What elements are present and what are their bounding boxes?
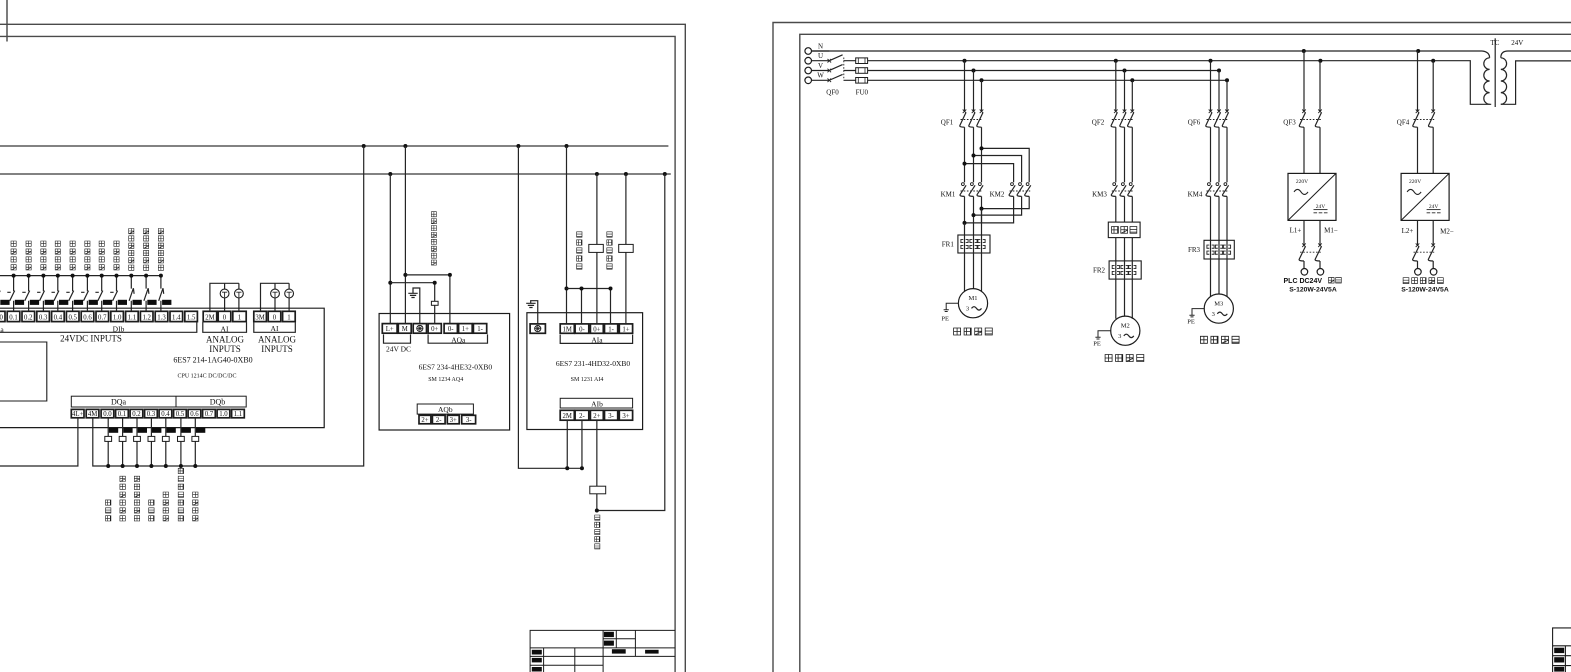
SM1231 terminal 0- xyxy=(575,324,589,333)
load cell element xyxy=(590,486,606,494)
DI 0.1 manual button switch xyxy=(7,276,14,312)
DQ0.1 wash motor fwd label xyxy=(120,476,125,521)
KM3 contact x=1115.8 xyxy=(1113,183,1116,186)
svg-text:SM 1231 AI4: SM 1231 AI4 xyxy=(571,377,604,383)
svg-text:W: W xyxy=(817,72,824,80)
fuse on AQ 0+ xyxy=(431,301,438,305)
SM1234 terminal 0+ xyxy=(428,324,441,334)
svg-text:ANALOG: ANALOG xyxy=(258,335,296,345)
junction on M rail x=405.4 xyxy=(403,144,407,148)
DI 0.4 fill button terminal bar xyxy=(59,300,68,305)
svg-text:220V: 220V xyxy=(1296,179,1308,185)
svg-text:0.7: 0.7 xyxy=(98,314,107,321)
SM1234 terminal L+ xyxy=(382,324,397,334)
breaker QF4 pole B xyxy=(1432,61,1434,112)
contactor KM2 xyxy=(1011,183,1014,186)
DQ0.0 fill valve wire xyxy=(107,418,109,466)
wire 4M return bus xyxy=(93,146,364,466)
CPU DQ terminal 1.1 xyxy=(232,409,245,417)
fuse FU0 pole V xyxy=(856,68,868,74)
wire load cell circuit xyxy=(597,174,665,511)
label motor M3 (chinese) xyxy=(1200,336,1239,343)
svg-text:PE: PE xyxy=(1187,319,1195,326)
DQ0.0 fill valve fuse xyxy=(105,436,112,441)
svg-text:1.2: 1.2 xyxy=(142,314,151,321)
svg-text:24V: 24V xyxy=(1429,204,1439,210)
svg-text:0.2: 0.2 xyxy=(132,411,141,418)
output switch x=1320.0 xyxy=(1319,220,1321,245)
wire L+ riser to SM1234 xyxy=(389,174,391,324)
svg-text:FU0: FU0 xyxy=(856,89,869,97)
svg-text:1: 1 xyxy=(238,314,241,321)
svg-text:AI: AI xyxy=(271,324,279,333)
right sheet title block xyxy=(1553,628,1571,672)
CPU DI terminal 0.7 xyxy=(96,311,109,321)
svg-text:QF3: QF3 xyxy=(1283,119,1296,127)
svg-text:L2+: L2+ xyxy=(1402,227,1414,235)
breaker QF3 pole A xyxy=(1303,51,1305,111)
wires FR2 to M2 xyxy=(1116,279,1133,319)
svg-text:3-: 3- xyxy=(466,417,472,424)
wire 4L+ to left xyxy=(0,418,78,466)
wire stub top-left xyxy=(6,0,8,42)
CPU AI terminal 2M (group a) xyxy=(203,311,217,321)
SM1234 terminal 1+ xyxy=(459,324,473,334)
svg-text:0.1: 0.1 xyxy=(9,314,18,321)
junction on L+ rail x=596.9 xyxy=(595,172,599,176)
phase line U xyxy=(844,61,1492,105)
bracket DIb xyxy=(0,322,197,332)
DI 1.2 mid level sensor label xyxy=(144,229,149,271)
DQ0.3 drain valve fuse xyxy=(148,436,155,441)
label sensor supply xyxy=(1403,278,1443,284)
DQ0.5 alarm lamp label xyxy=(178,468,183,521)
DI 1.0 dry button terminal bar xyxy=(118,300,127,305)
svg-text:M2−: M2− xyxy=(1440,228,1454,236)
svg-text:1.3: 1.3 xyxy=(157,314,166,321)
breaker QF0 pole W xyxy=(828,79,832,83)
svg-text:INPUTS: INPUTS xyxy=(261,344,293,354)
KM4 linkage xyxy=(1207,190,1229,192)
DQ0.6 dry motor bar xyxy=(196,428,205,433)
svg-text:2-: 2- xyxy=(436,417,442,424)
svg-text:DQb: DQb xyxy=(210,398,226,407)
KM1 contact x=981.5 xyxy=(979,183,982,186)
SM1231 terminal 3- xyxy=(605,410,618,420)
junction on L+ rail x=625.9 xyxy=(624,172,628,176)
wires FR3 to M3 xyxy=(1211,259,1228,297)
label load cell (rotated) xyxy=(595,515,600,549)
svg-text:3M: 3M xyxy=(255,314,264,321)
fuse FU0 pole W xyxy=(856,78,868,84)
svg-text:3: 3 xyxy=(966,306,969,313)
SM1231 terminal 0+ xyxy=(590,324,603,333)
DQ0.4 spin motor wire xyxy=(165,418,167,466)
supply terminal U xyxy=(805,57,812,64)
svg-text:1.0: 1.0 xyxy=(113,314,122,321)
label temperature sensor 1 xyxy=(577,232,582,269)
svg-text:DQa: DQa xyxy=(111,398,127,407)
QF1 linkage xyxy=(961,119,983,121)
analog sensor pair b potentiometer at 289.1 xyxy=(285,289,294,298)
DI 0.1 manual button label xyxy=(11,241,16,270)
svg-text:0.4: 0.4 xyxy=(54,314,63,321)
CPU DQ terminal 0.5 xyxy=(174,409,187,417)
DI 0.5 wash button switch xyxy=(66,276,73,312)
svg-text:S-120W-24V5A: S-120W-24V5A xyxy=(1289,287,1337,294)
svg-text:1.5: 1.5 xyxy=(187,314,196,321)
svg-text:3: 3 xyxy=(1212,311,1215,318)
SM1231 terminal 1- xyxy=(605,324,618,333)
left sheet inner border xyxy=(0,36,675,672)
SM1231 terminal 1M xyxy=(560,324,574,333)
QF1 pole x=973.5 xyxy=(973,71,975,112)
SM1231 terminal 2+ xyxy=(590,410,603,420)
module SM1234 outline xyxy=(379,314,510,431)
wire 24V L+ rail xyxy=(0,173,671,175)
DI 0.2 stop button label xyxy=(26,241,31,270)
output terminal x=1320.0 xyxy=(1317,269,1324,276)
DQ0.5 alarm lamp bar xyxy=(182,428,191,433)
wire 1M/0-/1- bus xyxy=(567,289,611,324)
supply terminal N xyxy=(805,48,812,55)
QF6 pole x=1227.0 xyxy=(1226,80,1228,111)
svg-text:0-: 0- xyxy=(448,326,454,333)
QF3 linkage xyxy=(1300,119,1321,121)
phase line V xyxy=(844,70,1220,72)
svg-text:ANALOG: ANALOG xyxy=(206,335,244,345)
svg-text:AI: AI xyxy=(221,325,229,334)
wires KM1 to FR1 xyxy=(965,209,982,235)
wire AIb return bus xyxy=(518,146,582,468)
SM1234 terminal PE xyxy=(413,324,426,334)
CPU DQ terminal 0.2 xyxy=(130,409,143,417)
left sheet title block xyxy=(530,630,675,672)
CPU DI terminal 0.5 xyxy=(66,311,79,321)
output switch x=1417.5 xyxy=(1417,220,1419,245)
wires FR1 to M1 xyxy=(965,253,982,291)
svg-text:QF1: QF1 xyxy=(941,119,954,127)
CPU DQ terminal 0.6 xyxy=(188,409,201,417)
title block redacted entries xyxy=(604,632,614,637)
wire M to AQ 0- xyxy=(405,275,450,324)
svg-text:KM3: KM3 xyxy=(1092,191,1107,199)
svg-text:0.6: 0.6 xyxy=(83,314,92,321)
svg-text:220V: 220V xyxy=(1409,179,1421,185)
thermal overload FR2 xyxy=(1109,261,1141,279)
QF2 pole x=1132.3 xyxy=(1131,80,1133,111)
junction on L+ rail x=664.8 xyxy=(663,172,667,176)
CPU AI terminal 0 (group b) xyxy=(268,311,281,321)
label spin motor VFD speed (rotated) xyxy=(431,212,436,265)
supply terminal V xyxy=(805,67,812,74)
DI 0.7 spin button terminal bar xyxy=(103,300,112,305)
temperature sensor 1 xyxy=(589,244,604,252)
svg-text:24V DC: 24V DC xyxy=(386,345,411,354)
transformer TC secondary leads xyxy=(1501,51,1571,104)
DI 0.2 stop button terminal bar xyxy=(30,300,39,305)
svg-text:6ES7 231-4HD32-0XB0: 6ES7 231-4HD32-0XB0 xyxy=(556,359,631,368)
DQ0.4 spin motor fuse xyxy=(162,436,169,441)
DI 1.0 dry button switch xyxy=(110,276,117,312)
svg-text:0+: 0+ xyxy=(431,326,438,333)
wires VFD to FR2 xyxy=(1116,238,1133,261)
svg-text:U: U xyxy=(818,52,823,60)
phase line N xyxy=(812,51,1490,58)
svg-text:2+: 2+ xyxy=(593,413,600,420)
KM3 linkage xyxy=(1112,190,1134,192)
crossover lower from KM2 xyxy=(965,196,1030,223)
SM1231 terminal PE xyxy=(530,324,545,333)
svg-text:24V: 24V xyxy=(1316,204,1326,210)
svg-text:FR2: FR2 xyxy=(1093,267,1106,275)
svg-text:2-: 2- xyxy=(579,413,585,420)
bracket AI group a xyxy=(203,322,247,332)
DI 0.6 drain button label xyxy=(85,241,90,270)
svg-text:M3: M3 xyxy=(1214,300,1223,307)
svg-text:0.3: 0.3 xyxy=(39,314,48,321)
module SM1231 outline xyxy=(527,313,643,430)
thermal overload FR1 xyxy=(958,235,990,253)
SM1234 terminal 3- xyxy=(462,415,476,424)
analog sensor pair a potentiometer at 224.6 xyxy=(220,289,229,298)
CPU DI terminal 0.3 xyxy=(37,311,50,321)
KM4 contact x=1219.0 xyxy=(1216,183,1219,186)
DQ0.6 dry motor wire xyxy=(194,418,196,466)
transformer TC secondary winding xyxy=(1501,58,1507,104)
DI 0.2 stop button switch xyxy=(22,276,29,312)
DI 0.0 input terminal bar xyxy=(0,300,9,305)
SM1234 terminal 2- xyxy=(432,415,445,424)
svg-text:M2: M2 xyxy=(1121,323,1130,330)
svg-text:KM2: KM2 xyxy=(990,191,1005,199)
CPU DI terminal 1.3 xyxy=(155,311,168,321)
svg-text:3+: 3+ xyxy=(622,413,629,420)
CPU AI terminal 1 (group a) xyxy=(233,311,246,321)
CPU DI terminal 0.1 xyxy=(7,311,20,321)
wire DI common line xyxy=(0,275,161,277)
CPU DI terminal 1.1 xyxy=(126,311,139,321)
DI 1.3 low level sensor label xyxy=(158,229,163,271)
svg-text:INPUTS: INPUTS xyxy=(209,344,241,354)
DI 0.7 spin button switch xyxy=(95,276,102,312)
svg-text:0.2: 0.2 xyxy=(24,314,33,321)
svg-text:AQa: AQa xyxy=(451,335,466,344)
svg-text:1: 1 xyxy=(287,314,290,321)
svg-text:TC: TC xyxy=(1490,39,1499,47)
SM1234 terminal M xyxy=(398,324,411,334)
svg-text:PE: PE xyxy=(941,316,949,323)
analog sensor pair b wiring xyxy=(261,283,290,311)
svg-text:0.1: 0.1 xyxy=(118,411,127,418)
breaker QF0 pole U xyxy=(828,59,832,63)
breaker QF4 pole A xyxy=(1417,51,1419,111)
QF6 pole x=1219.0 xyxy=(1218,71,1220,112)
CPU DI terminal 1.0 xyxy=(111,311,124,321)
DI 1.1 high level sensor switch xyxy=(129,276,134,312)
DI 0.0 input switch xyxy=(0,276,1,312)
junction on M rail x=363.7 xyxy=(362,144,366,148)
svg-text:0.3: 0.3 xyxy=(147,411,156,418)
CPU AI terminal 0 (group a) xyxy=(218,311,231,321)
DI 0.1 manual button terminal bar xyxy=(15,300,24,305)
svg-text:0: 0 xyxy=(273,314,277,321)
CPU DQ terminal 1.0 xyxy=(217,409,230,417)
CPU DQ terminal 4L+ xyxy=(71,409,84,417)
PE connection M1 xyxy=(944,303,959,311)
CPU DI terminal 1.5 xyxy=(185,311,198,321)
svg-text:24VDC INPUTS: 24VDC INPUTS xyxy=(60,334,122,344)
motor M2 xyxy=(1111,316,1140,345)
temperature sensor 2 xyxy=(619,244,634,252)
QF4 linkage xyxy=(1414,119,1435,121)
DI 1.1 high level sensor terminal bar xyxy=(133,300,142,305)
CPU DI terminal 0.2 xyxy=(22,311,35,321)
wire 1M riser xyxy=(566,146,568,324)
DQ0.6 dry motor fuse xyxy=(192,436,199,441)
bracket AI group b xyxy=(254,322,295,332)
svg-text:PE: PE xyxy=(1093,341,1101,348)
DI 0.4 fill button switch xyxy=(52,276,59,312)
transformer TC core xyxy=(1494,38,1496,107)
svg-text:0.7: 0.7 xyxy=(205,411,214,418)
SM1234 terminal 2+ xyxy=(419,415,431,424)
DQ0.6 dry motor label xyxy=(193,492,198,521)
phase line W xyxy=(844,79,1228,81)
junction on L+ rail x=390.3 xyxy=(388,172,392,176)
temperature sensor 2 riser xyxy=(625,174,627,324)
CPU DQ terminal 0.7 xyxy=(203,409,216,417)
DI 1.2 mid level sensor terminal bar xyxy=(147,300,156,305)
svg-text:KM1: KM1 xyxy=(941,191,956,199)
PE connection M3 xyxy=(1189,309,1204,317)
KM1 linkage xyxy=(961,190,983,192)
svg-text:3: 3 xyxy=(1118,333,1121,340)
QF2 pole x=1124.5 xyxy=(1124,71,1126,112)
svg-text:S-120W-24V5A: S-120W-24V5A xyxy=(1401,287,1449,294)
DQ0.3 drain valve wire xyxy=(150,418,152,466)
DI 0.5 wash button label xyxy=(70,241,75,270)
svg-text:AIa: AIa xyxy=(591,336,603,345)
svg-text:V: V xyxy=(818,62,823,70)
svg-text:3-: 3- xyxy=(608,413,614,420)
DQ0.1 wash motor fwd fuse xyxy=(119,436,126,441)
DQ0.2 wash motor rev wire xyxy=(136,418,138,466)
svg-text:1.1: 1.1 xyxy=(234,411,243,418)
DI 0.5 wash button terminal bar xyxy=(74,300,83,305)
svg-text:SM 1234 AQ4: SM 1234 AQ4 xyxy=(428,377,463,383)
DI 1.2 mid level sensor switch xyxy=(144,276,149,312)
svg-text:2M: 2M xyxy=(205,314,214,321)
svg-text:AQb: AQb xyxy=(438,405,453,414)
svg-text:1+: 1+ xyxy=(462,326,469,333)
right sheet outer border xyxy=(773,23,1571,672)
DQ0.1 wash motor fwd bar xyxy=(123,428,132,433)
bracket AIb xyxy=(560,398,632,408)
svg-text:L1+: L1+ xyxy=(1290,227,1302,235)
svg-text:0.5: 0.5 xyxy=(176,411,185,418)
DI 0.4 fill button label xyxy=(55,241,60,270)
svg-text:QF6: QF6 xyxy=(1188,119,1201,127)
SM1234 terminal 1- xyxy=(473,324,486,334)
svg-text:M: M xyxy=(402,326,408,333)
KM3 contact x=1132.3 xyxy=(1129,183,1132,186)
DQ0.3 drain valve bar xyxy=(152,428,161,433)
svg-text:PLC DC24V: PLC DC24V xyxy=(1284,278,1323,285)
crossover upper to KM2 xyxy=(965,148,1030,182)
ground symbol SM1231 xyxy=(526,301,538,324)
transformer TC primary winding xyxy=(1484,58,1490,104)
power supply PSU1 220V/24V xyxy=(1288,173,1336,220)
QF6 pole x=1210.5 xyxy=(1210,61,1212,112)
svg-text:M1−: M1− xyxy=(1324,227,1338,235)
DI 1.1 high level sensor label xyxy=(129,229,134,271)
KM1 contact x=964.5 xyxy=(962,183,965,186)
QF6 linkage xyxy=(1207,119,1229,121)
KM4 contact x=1227.0 xyxy=(1224,183,1227,186)
svg-text:1-: 1- xyxy=(608,326,614,333)
DQ0.2 wash motor rev bar xyxy=(138,428,147,433)
svg-text:QF0: QF0 xyxy=(826,89,839,97)
output linkage xyxy=(1300,251,1321,253)
QF1 pole x=981.5 xyxy=(981,80,983,111)
bracket DQa/DQb xyxy=(71,396,246,407)
junction on M rail x=518.4 xyxy=(516,144,520,148)
CPU AI terminal 1 (group b) xyxy=(283,311,296,321)
SM1231 terminal 1+ xyxy=(619,324,632,333)
bracket AQb xyxy=(417,404,473,414)
power supply PSU2 220V/24V xyxy=(1401,173,1449,220)
svg-text:1.1: 1.1 xyxy=(128,314,137,321)
DI 0.3 fault signal label xyxy=(41,241,46,270)
output switch x=1433.2 xyxy=(1432,220,1434,245)
junction on M rail x=566.5 xyxy=(565,144,569,148)
DI 0.7 spin button label xyxy=(99,241,104,270)
bracket AIa xyxy=(560,335,632,344)
temperature sensor 1 riser xyxy=(596,174,598,324)
DQ0.4 spin motor bar xyxy=(166,428,175,433)
svg-text:FR1: FR1 xyxy=(942,241,955,249)
svg-text:6ES7 234-4HE32-0XB0: 6ES7 234-4HE32-0XB0 xyxy=(419,363,493,372)
DI 0.3 fault signal switch xyxy=(37,276,44,312)
svg-text:0: 0 xyxy=(223,314,227,321)
output terminal x=1304.0 xyxy=(1301,269,1308,276)
breaker QF3 pole B xyxy=(1319,61,1321,112)
CPU DQ terminal 0.3 xyxy=(145,409,158,417)
wire M riser to SM1234 xyxy=(404,146,406,324)
DI 0.6 drain button switch xyxy=(81,276,88,312)
svg-text:0-: 0- xyxy=(579,326,585,333)
svg-text:0+: 0+ xyxy=(593,326,600,333)
DQ0.5 alarm lamp wire xyxy=(180,418,182,466)
label VFD xyxy=(1112,227,1137,234)
CPU DI terminal 0.6 xyxy=(81,311,94,321)
SM1231 terminal 2- xyxy=(575,410,589,420)
CPU DQ terminal 0.1 xyxy=(116,409,129,417)
svg-text:3+: 3+ xyxy=(450,417,457,424)
svg-text:0.6: 0.6 xyxy=(190,411,199,418)
svg-text:24V: 24V xyxy=(1511,39,1523,47)
left sheet outer border xyxy=(0,24,685,672)
svg-text:2M: 2M xyxy=(563,413,572,420)
output switch x=1304.0 xyxy=(1303,220,1305,245)
DI 1.3 low level sensor switch xyxy=(159,276,164,312)
svg-text:N: N xyxy=(818,42,823,50)
svg-text:0.4: 0.4 xyxy=(161,411,170,418)
right title block redacted entries xyxy=(1554,648,1564,653)
DQ0.2 wash motor rev fuse xyxy=(134,436,141,441)
DI 1.3 low level sensor terminal bar xyxy=(162,300,171,305)
